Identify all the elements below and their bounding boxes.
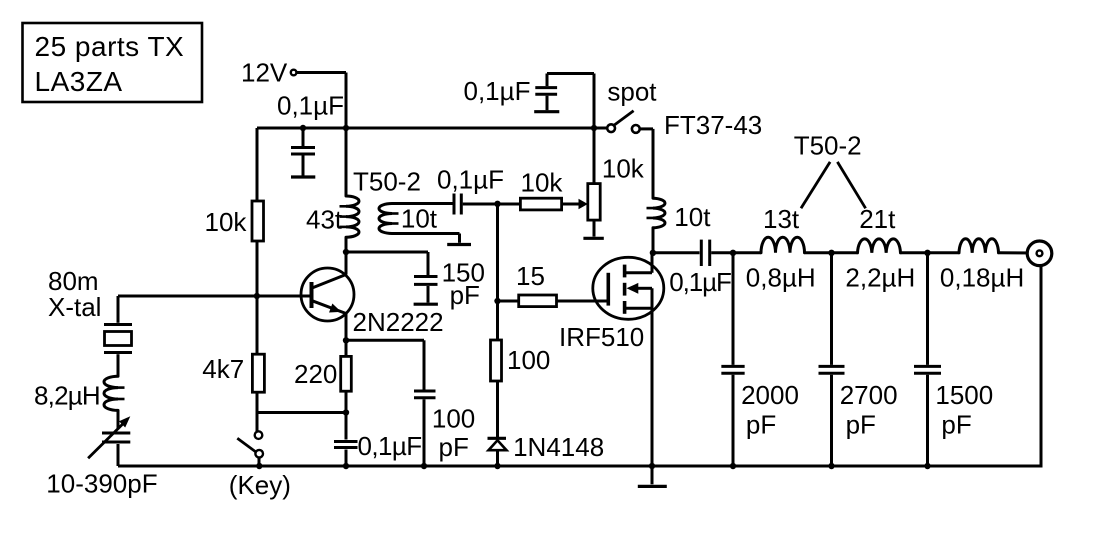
svg-text:pF: pF (450, 280, 480, 310)
svg-text:pF: pF (439, 432, 469, 462)
svg-text:8,2µH: 8,2µH (34, 380, 100, 410)
svg-text:0,18µH: 0,18µH (940, 263, 1024, 293)
svg-text:1N4148: 1N4148 (513, 432, 604, 462)
svg-text:12V: 12V (241, 58, 288, 88)
svg-text:100: 100 (432, 404, 475, 434)
svg-text:13t: 13t (763, 204, 800, 234)
svg-text:25 parts TX: 25 parts TX (35, 31, 185, 62)
svg-text:X-tal: X-tal (48, 292, 101, 322)
svg-text:10t: 10t (674, 202, 711, 232)
svg-text:IRF510: IRF510 (559, 322, 644, 352)
svg-text:2000: 2000 (741, 380, 799, 410)
svg-text:spot: spot (607, 76, 657, 106)
svg-text:0,8µH: 0,8µH (746, 263, 816, 293)
svg-text:pF: pF (941, 410, 971, 440)
svg-text:T50-2: T50-2 (794, 131, 862, 161)
svg-text:220: 220 (294, 359, 337, 389)
svg-text:10k: 10k (205, 207, 248, 237)
svg-text:FT37-43: FT37-43 (664, 110, 762, 140)
svg-text:10-390pF: 10-390pF (46, 469, 157, 499)
svg-text:1500: 1500 (935, 380, 993, 410)
svg-text:0,1µF: 0,1µF (277, 90, 344, 120)
svg-text:4k7: 4k7 (202, 354, 244, 384)
svg-text:10k: 10k (521, 168, 564, 198)
svg-text:43t: 43t (306, 205, 343, 235)
svg-text:100: 100 (507, 345, 550, 375)
svg-text:15: 15 (516, 261, 545, 291)
svg-text:T50-2: T50-2 (353, 167, 421, 197)
svg-text:2,2µH: 2,2µH (845, 263, 915, 293)
svg-text:0,1µF: 0,1µF (358, 431, 422, 461)
svg-text:(Key): (Key) (229, 470, 291, 500)
svg-text:10t: 10t (401, 203, 438, 233)
svg-text:pF: pF (746, 410, 776, 440)
svg-text:LA3ZA: LA3ZA (35, 66, 123, 97)
svg-text:0,1µF: 0,1µF (437, 164, 504, 194)
svg-text:2N2222: 2N2222 (353, 307, 444, 337)
svg-text:0,1µF: 0,1µF (669, 267, 731, 297)
svg-text:0,1µF: 0,1µF (464, 76, 531, 106)
svg-text:10k: 10k (602, 153, 645, 183)
svg-text:pF: pF (846, 410, 876, 440)
svg-text:2700: 2700 (840, 380, 898, 410)
